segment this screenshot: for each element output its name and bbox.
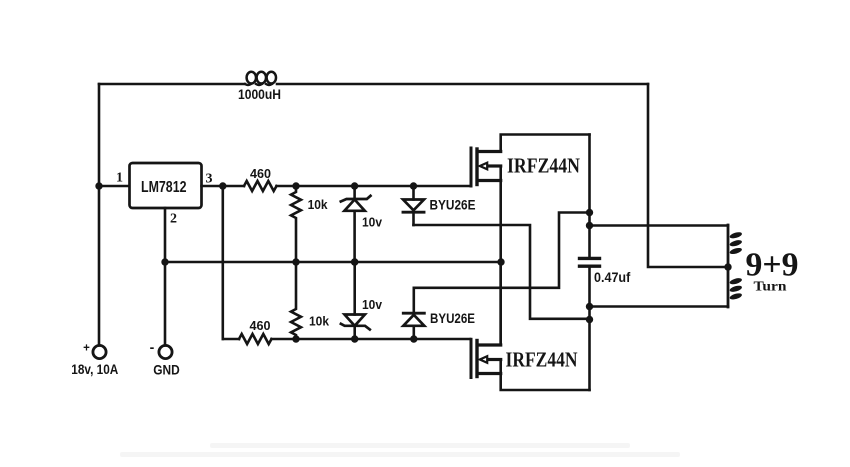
node dot cap top right [586, 222, 593, 229]
node dot zener top rail [351, 182, 358, 189]
svg-text:-: - [150, 339, 155, 355]
node dot cap top left [586, 209, 593, 216]
wire pin 2 down [164, 208, 167, 345]
terminal + 18v [83, 343, 106, 359]
svg-text:BYU26E: BYU26E [430, 311, 475, 326]
node dot zener bottom gnd [351, 258, 358, 265]
svg-text:+: + [83, 343, 90, 355]
resistor R3 460 bottom [239, 334, 271, 344]
node dot 10k bottom rail [292, 335, 299, 342]
wire diode top to cap bottom [414, 225, 590, 319]
svg-text:10k: 10k [308, 198, 328, 212]
inductor L1 1000uH [245, 72, 276, 85]
transformer T1 9+9 turn [728, 225, 743, 307]
svg-text:460: 460 [250, 319, 271, 333]
node dot 460/10k top [292, 182, 299, 189]
svg-text:Turn: Turn [754, 280, 787, 295]
svg-text:9+9: 9+9 [746, 247, 799, 284]
wire middle ground rail [165, 261, 501, 264]
svg-text:IRFZ44N: IRFZ44N [506, 348, 578, 372]
capacitor C1 0.47uf [580, 258, 600, 266]
resistor R2 10k top [291, 186, 301, 262]
wire gate rail bottom [223, 338, 470, 341]
svg-text:460: 460 [250, 167, 271, 181]
node dot gnd rail [161, 258, 168, 265]
wire pin 3 out [202, 185, 245, 188]
node dot source / gnd rail [497, 258, 504, 265]
svg-text:1: 1 [116, 171, 123, 186]
node dot diode bottom rail [410, 335, 417, 342]
wire left vertical [98, 84, 101, 345]
wire top rail right segment [277, 83, 648, 86]
mosfet Q1 IRFZ44N top [471, 148, 501, 186]
regulator U1 LM7812 [130, 163, 202, 208]
diode D4 BYU26E bottom [403, 288, 424, 339]
wire diode bottom to cap top [414, 213, 590, 288]
node dot zener bottom rail [351, 335, 358, 342]
wire gate rail top [277, 185, 471, 188]
wire pin 1 [99, 185, 129, 188]
wire top rail left segment [99, 83, 245, 86]
wire source bottom path [501, 360, 590, 391]
svg-text:LM7812: LM7812 [141, 179, 187, 196]
wire drain top to box [501, 135, 590, 152]
node dot zener top / gnd [351, 258, 358, 265]
wire source vertical [499, 166, 502, 345]
terminal - GND [150, 339, 172, 359]
svg-text:3: 3 [206, 172, 213, 187]
resistor R1 460 top [244, 181, 276, 191]
wire drain bottom vertical [499, 262, 502, 345]
node dot coil centre tap [724, 263, 731, 270]
svg-text:10v: 10v [362, 215, 383, 230]
mosfet Q2 IRFZ44N bottom [471, 339, 501, 377]
wire cap bottom vertical [588, 266, 591, 390]
svg-text:10v: 10v [362, 297, 383, 312]
node dot cap bottom coil [586, 303, 593, 310]
node dot diode top rail [410, 182, 417, 189]
svg-text:18v, 10A: 18v, 10A [71, 361, 118, 377]
svg-text:2: 2 [170, 212, 177, 227]
resistor R4 10k bottom [291, 262, 301, 339]
zener D1 10v top [341, 186, 371, 262]
wire coil top feed [590, 224, 729, 227]
svg-text:10k: 10k [309, 315, 329, 329]
diode D2 BYU26E top [403, 186, 424, 225]
wire right drop to coil centre [648, 84, 728, 267]
faint watermark remnant [120, 443, 680, 457]
node dot cap bottom left [586, 316, 593, 323]
node dot pin1 branch [95, 182, 102, 189]
node dot pin3 branch [219, 182, 226, 189]
wire pin3 drop to bottom rail [222, 186, 225, 339]
svg-text:0.47uf: 0.47uf [594, 270, 631, 285]
svg-text:GND: GND [153, 361, 180, 377]
svg-text:1000uH: 1000uH [238, 87, 281, 102]
svg-text:IRFZ44N: IRFZ44N [507, 154, 580, 178]
svg-text:BYU26E: BYU26E [430, 198, 476, 213]
zener D3 10v bottom [341, 262, 370, 339]
wire cap top vertical [588, 135, 591, 259]
wire coil bottom feed [590, 305, 729, 308]
node dot 10k top / gnd [292, 258, 299, 265]
